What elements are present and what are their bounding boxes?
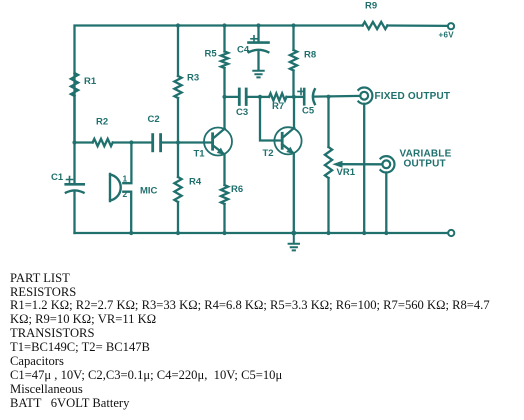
wire T1 emitter drop (223, 155, 225, 186)
microphone MIC (110, 174, 158, 202)
wire R8 top stub (292, 26, 294, 51)
resistor R7 (269, 93, 287, 112)
wire R5 top stub (223, 26, 225, 52)
wire T2 collector riser (293, 97, 295, 128)
capacitor C1 (51, 172, 84, 193)
capacitor C3 (236, 89, 248, 118)
svg-text:C1: C1 (51, 172, 64, 183)
node R3 top rail junction (176, 23, 180, 27)
node R5 top rail junction (222, 23, 226, 27)
wire C5 to jack (315, 95, 361, 98)
wire R2 left stub (75, 141, 93, 143)
wire mic pin2 drop (123, 192, 131, 233)
svg-text:R5: R5 (205, 48, 218, 59)
svg-text:T2: T2 (263, 148, 274, 159)
node R8 top rail junction (291, 23, 295, 27)
svg-text:2: 2 (123, 189, 128, 199)
wire T2 base drop (260, 97, 282, 141)
svg-text:R8: R8 (304, 50, 316, 61)
wire top rail left section (75, 26, 363, 143)
svg-text:C2: C2 (148, 114, 160, 125)
wire VR1 top drop (327, 97, 329, 147)
svg-text:R3: R3 (187, 73, 199, 84)
wire R7 left stub (260, 96, 269, 98)
resistor R1 (71, 73, 97, 96)
ground C4 (253, 71, 263, 78)
node R2 junction (72, 140, 76, 144)
capacitor C5 (294, 88, 315, 116)
svg-text:T1: T1 (194, 148, 206, 159)
node R6 rail junction (222, 231, 226, 235)
node C4 top rail junction (256, 23, 260, 27)
wire R6 bottom stub (223, 204, 225, 233)
wire R2 to C2 (113, 141, 152, 143)
svg-text:OUTPUT: OUTPUT (404, 159, 446, 170)
wire left rail mid (73, 96, 75, 184)
node ground rail junction (291, 231, 296, 236)
node mic pin2 rail junction (129, 231, 133, 235)
ground main (289, 233, 299, 250)
wire C2 to T1 base (161, 141, 213, 143)
svg-text:R2: R2 (96, 117, 108, 128)
svg-text:C4: C4 (237, 45, 250, 56)
wire R3 top stub (177, 26, 179, 77)
wire VR1 bottom stub (327, 178, 329, 233)
node VR1 rail junction (326, 231, 330, 235)
wire top rail right section (387, 24, 447, 27)
resistor R6 (221, 184, 243, 204)
node variable jack rail junction (384, 231, 388, 235)
wire R5 to C3 node (223, 68, 225, 97)
resistor R3 (174, 73, 199, 99)
svg-text:R4: R4 (189, 176, 202, 187)
capacitor C2 (148, 114, 161, 151)
node R7 right junction (292, 95, 296, 99)
svg-text:1: 1 (123, 174, 128, 184)
transistor T2 (263, 127, 302, 159)
terminal VARIABLE OUTPUT jack (381, 149, 452, 173)
resistor R9 (363, 0, 388, 29)
svg-text:C3: C3 (236, 107, 248, 118)
node R7 left junction (258, 95, 262, 99)
capacitor C4 (237, 26, 269, 71)
node mic junction (129, 140, 133, 144)
svg-text:R1: R1 (84, 76, 97, 87)
terminal FIXED OUTPUT jack (358, 88, 450, 104)
wire R4 bottom stub (177, 202, 179, 233)
wire variable jack drop (385, 173, 387, 234)
wire R3 to R4 (177, 98, 179, 177)
wire C3 right stub (246, 96, 260, 98)
wire fixed jack drop (363, 104, 365, 233)
wire R7 right stub (287, 96, 295, 98)
svg-text:R9: R9 (365, 0, 377, 11)
node C3 left junction (222, 95, 226, 99)
wire T1 collector riser (223, 97, 225, 129)
transistor T1 (194, 128, 233, 160)
terminal +6V (439, 23, 455, 39)
svg-text:+6V: +6V (439, 31, 455, 40)
svg-text:R6: R6 (231, 184, 243, 195)
node fixed jack rail junction (362, 231, 366, 235)
resistor R5 (205, 48, 229, 68)
svg-text:FIXED OUTPUT: FIXED OUTPUT (375, 91, 451, 102)
wire bottom rail (75, 232, 449, 234)
node R3-R4 junction (176, 140, 180, 144)
resistor R2 (93, 117, 113, 147)
svg-text:R7: R7 (272, 101, 284, 112)
node VR1 top junction (326, 95, 330, 99)
wire mic pin1 riser (123, 143, 131, 184)
terminal bottom right (448, 230, 454, 236)
wire C3 left stub (225, 96, 240, 98)
resistor R4 (174, 176, 201, 202)
svg-text:VR1: VR1 (337, 167, 356, 178)
resistor R8 (290, 50, 316, 71)
node R4 rail junction (176, 231, 180, 235)
wire left rail bottom (73, 193, 75, 233)
potentiometer VR1 (325, 147, 383, 178)
wire R8 to R7 node (292, 71, 294, 97)
wire T2 emitter drop (293, 154, 295, 233)
svg-text:C5: C5 (302, 106, 315, 117)
svg-text:MIC: MIC (140, 186, 158, 197)
